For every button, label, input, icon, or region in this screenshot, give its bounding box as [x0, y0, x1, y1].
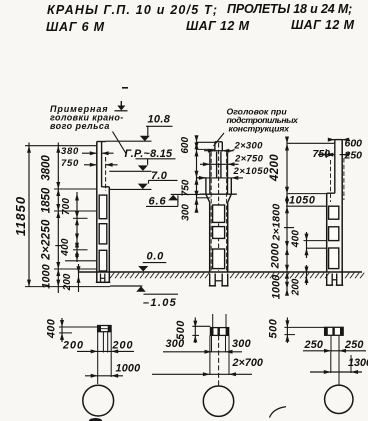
svg-text:300: 300 [232, 338, 251, 350]
svg-text:400: 400 [46, 318, 58, 339]
right section dim 1300 [310, 371, 362, 373]
svg-text:ШАГ 6 М: ШАГ 6 М [46, 20, 105, 34]
left column openings [99, 195, 107, 219]
svg-text:–1.05: –1.05 [143, 297, 177, 309]
svg-text:4200: 4200 [269, 154, 281, 182]
middle section verticals below [211, 335, 213, 352]
middle section dim 2x700 [152, 373, 252, 375]
svg-text:600: 600 [180, 137, 191, 154]
right section dim 250|250 [303, 350, 366, 352]
svg-text:300: 300 [166, 338, 185, 350]
dim 2x750 [200, 163, 239, 165]
level mark -1.05 [110, 285, 142, 287]
svg-text:380: 380 [61, 146, 79, 157]
left section verticals [97, 332, 99, 384]
right section rect [325, 327, 344, 335]
level mark 6.6 [146, 205, 178, 207]
right column axes [330, 160, 332, 202]
left section dim 200|200 [77, 350, 134, 352]
svg-text:1000: 1000 [41, 263, 53, 288]
level mark 10.8 [106, 140, 152, 142]
dim chain 11850 [28, 143, 30, 287]
svg-text:2×1800: 2×1800 [271, 203, 283, 241]
right column openings [329, 206, 339, 219]
svg-text:конструкциях: конструкциях [229, 124, 291, 134]
middle column axes [218, 143, 220, 271]
left section circle [83, 385, 114, 416]
ground hatching [110, 273, 364, 279]
svg-text:2×700: 2×700 [232, 357, 263, 369]
svg-text:10.8: 10.8 [148, 114, 171, 126]
svg-text:КРАНЫ Г.П. 10 и 20/5 Т;: КРАНЫ Г.П. 10 и 20/5 Т; [47, 3, 218, 17]
left section rect [98, 326, 112, 332]
middle column neck [216, 152, 218, 178]
middle section axis [218, 335, 220, 385]
svg-text:700: 700 [61, 198, 72, 216]
level mark 0.0 [143, 262, 167, 264]
svg-text:3800: 3800 [41, 155, 53, 181]
middle section dim 300|300 [163, 351, 242, 353]
svg-text:1000: 1000 [116, 363, 141, 375]
svg-text:2×300: 2×300 [234, 141, 264, 152]
extension lines left chains [25, 145, 97, 147]
dim 200 right bottom [306, 265, 308, 285]
right column outline [334, 140, 336, 194]
inner chain left column 700/400 [76, 192, 78, 262]
left column feet below ground [100, 274, 102, 283]
svg-text:750: 750 [181, 179, 192, 196]
middle section dim 500 [194, 318, 196, 344]
svg-text:500: 500 [175, 320, 187, 340]
chain 4200 / 2x1800 / 2000 / 1000 [286, 140, 288, 294]
svg-text:750: 750 [61, 158, 79, 169]
svg-text:1050: 1050 [289, 195, 315, 207]
middle column wide block [205, 178, 207, 194]
middle section verticals above [212, 314, 214, 328]
svg-text:750: 750 [313, 148, 331, 160]
middle column left chain 600/750/300 [196, 140, 198, 209]
dim 400 right inner [306, 232, 308, 258]
svg-text:1300: 1300 [348, 357, 368, 369]
level mark 7.0 [149, 179, 178, 181]
middle column corbel top [200, 193, 237, 195]
svg-text:1850: 1850 [41, 187, 53, 213]
stray dash mark [122, 87, 128, 89]
middle section circle [203, 386, 233, 416]
leader line rail note [113, 132, 127, 154]
middle column mid block [209, 153, 211, 195]
ground line [79, 271, 363, 273]
leader line cap note [214, 133, 225, 146]
dim 2x1050 [197, 177, 243, 179]
svg-text:2×750: 2×750 [234, 154, 264, 165]
ext top right column [287, 142, 335, 144]
svg-text:ШАГ 12 М: ШАГ 12 М [291, 18, 355, 32]
svg-text:ПРОЛЕТЫ 18 и 24 М;: ПРОЛЕТЫ 18 и 24 М; [227, 2, 352, 16]
level mark 8.15 [136, 158, 176, 160]
svg-text:250: 250 [304, 339, 324, 351]
dim 600 right top [329, 139, 335, 141]
right section circle [325, 385, 353, 413]
svg-text:11850: 11850 [13, 196, 28, 236]
left column outline [96, 142, 98, 283]
svg-text:2000: 2000 [270, 242, 282, 269]
svg-text:0.0: 0.0 [147, 251, 165, 263]
left column crane rail axis [105, 157, 107, 191]
svg-text:600: 600 [345, 138, 363, 150]
dim 2x300 [204, 150, 234, 152]
svg-text:6.6: 6.6 [149, 196, 167, 208]
middle column cap [215, 141, 222, 143]
svg-text:ШАГ 12 М: ШАГ 12 М [186, 19, 250, 33]
right section dim 500 [286, 318, 288, 344]
svg-text:1000: 1000 [271, 274, 283, 299]
svg-text:400: 400 [291, 230, 302, 249]
svg-text:2×1050: 2×1050 [233, 166, 270, 177]
svg-text:500: 500 [268, 318, 280, 338]
dim chain 3800/1850/2x2250/1000 [57, 143, 59, 294]
middle column chamfers [206, 194, 210, 202]
middle column openings [213, 205, 225, 222]
svg-text:200: 200 [291, 278, 302, 296]
dim 200 left bottom [78, 264, 80, 292]
right section verticals [330, 335, 332, 352]
left section dim 400 [61, 318, 63, 342]
svg-text:250: 250 [344, 339, 364, 351]
svg-text:Г.Р.~8.15: Г.Р.~8.15 [125, 148, 174, 160]
svg-text:400: 400 [60, 238, 71, 257]
label 1050 [289, 195, 315, 207]
svg-text:вого рельса: вого рельса [50, 121, 110, 131]
svg-text:200: 200 [62, 340, 84, 352]
ext corbel bottom right [286, 205, 327, 207]
middle column shaft [209, 202, 211, 272]
svg-text:2×2250: 2×2250 [41, 219, 53, 261]
svg-text:200: 200 [62, 273, 73, 291]
bottom edge blob [89, 418, 102, 421]
ext 6.6 level right [287, 193, 327, 195]
middle section rect [210, 328, 228, 336]
dim 750/250 right top [318, 154, 335, 156]
right column feet [326, 274, 328, 286]
left section dim 1000 [85, 375, 123, 377]
stray arc bottom [270, 407, 287, 418]
svg-text:200: 200 [112, 340, 134, 352]
svg-text:300: 300 [181, 204, 192, 221]
middle column feet [209, 274, 211, 286]
